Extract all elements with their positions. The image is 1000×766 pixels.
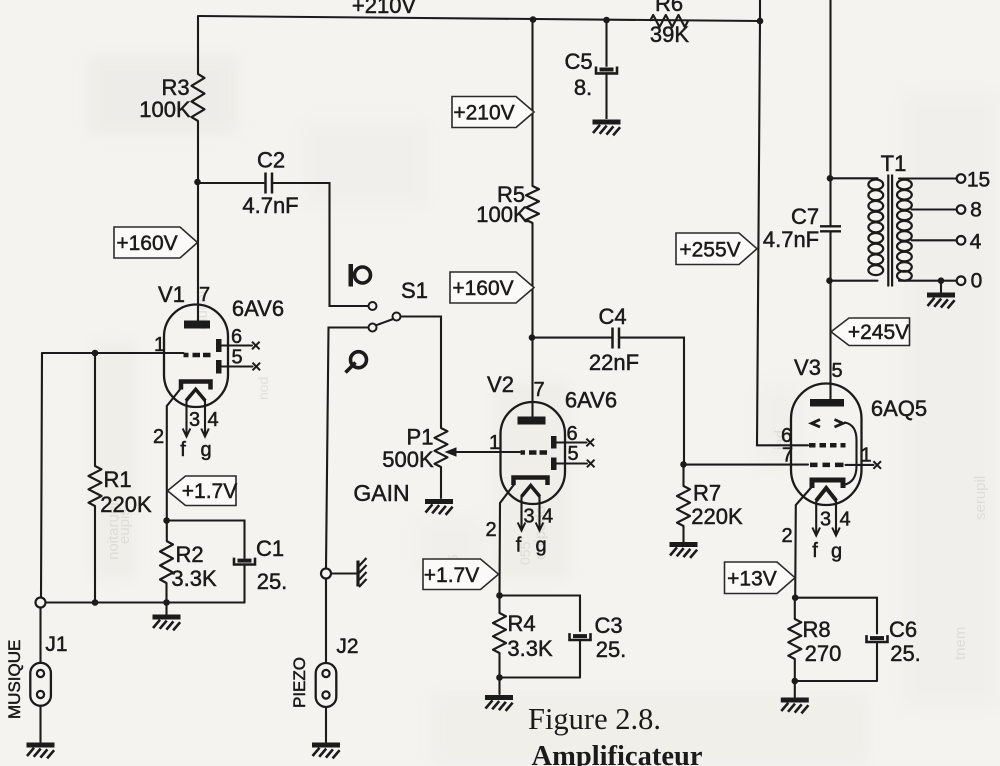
svg-text:6AV6: 6AV6	[565, 388, 617, 413]
svg-text:f: f	[180, 439, 186, 461]
svg-text:4.7nF: 4.7nF	[763, 227, 819, 252]
svg-text:7: 7	[782, 445, 793, 467]
svg-text:2: 2	[153, 426, 164, 448]
svg-text:39K: 39K	[650, 22, 689, 47]
svg-text:6: 6	[566, 423, 577, 445]
svg-text:3: 3	[820, 509, 831, 531]
svg-text:R4: R4	[507, 611, 535, 636]
svg-text:Amplificateur: Amplificateur	[532, 741, 703, 766]
svg-text:4: 4	[839, 509, 850, 531]
svg-text:Figure 2.8.: Figure 2.8.	[528, 702, 661, 736]
svg-text:g: g	[200, 439, 211, 461]
svg-text:g: g	[535, 535, 546, 557]
svg-text:1: 1	[860, 445, 871, 467]
svg-text:7: 7	[533, 379, 544, 401]
svg-text:f: f	[516, 535, 522, 557]
svg-text:+160V: +160V	[116, 232, 177, 255]
svg-text:25.: 25.	[890, 641, 921, 666]
svg-text:+1.7V: +1.7V	[424, 564, 479, 587]
svg-text:270: 270	[805, 641, 842, 666]
svg-text:6AV6: 6AV6	[232, 296, 284, 321]
svg-text:S1: S1	[401, 278, 428, 303]
svg-text:P1: P1	[407, 425, 434, 450]
svg-text:MUSIQUE: MUSIQUE	[5, 640, 24, 719]
svg-text:R1: R1	[103, 467, 131, 492]
svg-text:R2: R2	[175, 542, 203, 567]
svg-text:100K: 100K	[476, 202, 528, 227]
svg-text:25.: 25.	[596, 637, 627, 662]
svg-text:3: 3	[189, 409, 200, 431]
svg-text:3.3K: 3.3K	[171, 566, 217, 591]
svg-text:R8: R8	[802, 617, 830, 642]
svg-text:3: 3	[523, 506, 534, 528]
svg-text:+13V: +13V	[727, 568, 777, 591]
svg-text:+1.7V: +1.7V	[182, 480, 237, 503]
svg-text:6: 6	[231, 326, 242, 348]
svg-text:4: 4	[970, 231, 982, 254]
svg-text:+245V: +245V	[848, 321, 909, 344]
svg-text:3.3K: 3.3K	[507, 636, 553, 661]
svg-text:7: 7	[199, 284, 210, 306]
svg-text:8: 8	[970, 199, 982, 222]
svg-text:0: 0	[971, 270, 983, 293]
svg-text:220K: 220K	[100, 492, 152, 517]
svg-text:R6: R6	[655, 0, 683, 16]
svg-text:R7: R7	[693, 481, 721, 506]
svg-text:V3: V3	[794, 355, 821, 380]
svg-text:+210V: +210V	[352, 0, 417, 18]
svg-text:J1: J1	[45, 633, 67, 656]
svg-text:100K: 100K	[139, 97, 191, 122]
svg-text:4: 4	[542, 506, 553, 528]
svg-text:5: 5	[567, 443, 578, 465]
svg-text:2: 2	[485, 519, 496, 541]
svg-text:25.: 25.	[257, 569, 288, 594]
svg-text:C5: C5	[564, 49, 592, 74]
svg-text:15: 15	[967, 169, 990, 192]
svg-text:g: g	[831, 541, 842, 563]
svg-text:J2: J2	[336, 635, 358, 658]
svg-text:C3: C3	[594, 613, 622, 638]
svg-text:V1: V1	[158, 282, 185, 307]
svg-text:4: 4	[207, 409, 218, 431]
svg-text:8.: 8.	[574, 75, 592, 100]
svg-text:T1: T1	[881, 151, 907, 176]
svg-text:GAIN: GAIN	[353, 480, 409, 506]
svg-text:f: f	[812, 540, 818, 562]
svg-text:6AQ5: 6AQ5	[871, 396, 927, 421]
svg-text:4.7nF: 4.7nF	[242, 193, 298, 218]
svg-text:+210V: +210V	[453, 102, 514, 125]
svg-text:+255V: +255V	[679, 239, 740, 262]
svg-text:220K: 220K	[691, 504, 743, 529]
svg-text:V2: V2	[487, 372, 514, 397]
svg-text:5: 5	[231, 347, 242, 369]
svg-text:22nF: 22nF	[589, 350, 639, 375]
svg-text:nod: nod	[255, 377, 271, 400]
svg-text:5: 5	[831, 360, 842, 382]
svg-text:serupil: serupil	[972, 476, 989, 520]
svg-text:tnem: tnem	[952, 627, 969, 660]
svg-text:2: 2	[781, 525, 792, 547]
svg-text:500K: 500K	[382, 447, 434, 472]
svg-text:+160V: +160V	[452, 277, 513, 300]
svg-text:C6: C6	[889, 617, 917, 642]
svg-text:C2: C2	[257, 148, 285, 173]
svg-text:C4: C4	[598, 304, 626, 329]
svg-text:1: 1	[489, 432, 500, 454]
svg-text:C1: C1	[256, 536, 284, 561]
svg-text:PIEZO: PIEZO	[290, 657, 309, 708]
svg-text:1: 1	[154, 334, 165, 356]
svg-text:C7: C7	[791, 204, 819, 229]
